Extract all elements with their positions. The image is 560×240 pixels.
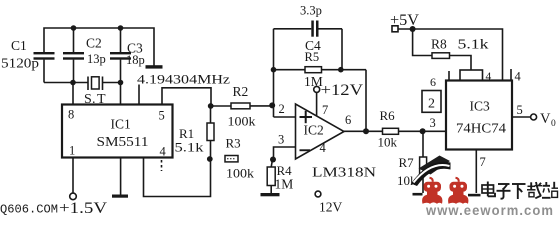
node dot rail C2 — [71, 25, 77, 31]
svg-text:IC1: IC1 — [111, 117, 131, 132]
pin 7 lead (IC3) — [475, 150, 477, 194]
wire IC1 pin xtal left — [72, 83, 74, 105]
svg-text:R3: R3 — [226, 136, 241, 151]
IC1 box — [62, 105, 173, 158]
svg-text:2: 2 — [279, 102, 285, 116]
terminal +12V — [314, 86, 320, 92]
svg-text:C2: C2 — [86, 36, 102, 51]
wire output — [344, 130, 383, 132]
pin 4 label (right) — [515, 70, 522, 84]
resistor R4 — [267, 160, 293, 194]
svg-text:4: 4 — [515, 70, 522, 84]
svg-text:4: 4 — [160, 145, 167, 159]
wire crystal rail — [44, 82, 121, 84]
pin 2 label (IC2) — [279, 102, 285, 116]
watermark www.eeworm.com — [425, 203, 554, 218]
IC3 preset pin box — [460, 70, 483, 81]
terminal +5V — [392, 26, 398, 32]
pin 8 label — [68, 108, 74, 122]
svg-text:100k: 100k — [226, 166, 255, 181]
pin 3 label (IC2) — [278, 133, 284, 147]
svg-text:4.194304MHz: 4.194304MHz — [137, 72, 230, 87]
svg-text:www.eeworm.com: www.eeworm.com — [425, 203, 554, 217]
svg-text:R6: R6 — [380, 108, 396, 123]
pin 1 label — [69, 144, 75, 158]
svg-text:5: 5 — [517, 103, 523, 117]
capacitor C2 — [63, 28, 106, 83]
ground (R7) — [413, 193, 423, 196]
node dot +5V — [410, 26, 416, 32]
svg-text:8: 8 — [68, 108, 74, 122]
capacitor C4 — [274, 4, 343, 54]
svg-text:R5: R5 — [305, 50, 320, 64]
svg-text:SM5511: SM5511 — [97, 134, 149, 149]
svg-text:5.1k: 5.1k — [175, 140, 205, 155]
terminal V0 — [531, 114, 537, 120]
svg-text:74HC74: 74HC74 — [456, 121, 506, 136]
svg-text:R7: R7 — [399, 155, 415, 170]
svg-text:100k: 100k — [228, 114, 257, 129]
label 12V — [319, 200, 343, 215]
node dot R5 right — [338, 67, 344, 73]
resistor R1 — [175, 106, 215, 159]
label V0 — [540, 111, 556, 129]
label 4.194304MHz — [137, 72, 230, 87]
label +12V — [321, 82, 364, 99]
resistor R8 — [413, 29, 489, 70]
resistor R2 — [213, 84, 272, 129]
svg-text:4: 4 — [320, 141, 327, 155]
node dot R1 bottom — [207, 156, 213, 162]
capacitor C3 — [110, 28, 145, 83]
svg-text:2: 2 — [428, 97, 435, 112]
wire top rail — [44, 28, 154, 66]
ground (IC1) — [112, 158, 128, 198]
svg-text:6: 6 — [430, 75, 436, 89]
pin 6 label (IC3) — [430, 75, 436, 89]
svg-text:+12V: +12V — [321, 82, 364, 99]
watermark bug 1 — [422, 178, 442, 204]
resistor R5 — [274, 50, 367, 89]
svg-text:+1.5V: +1.5V — [59, 200, 108, 217]
resistor R7 — [397, 131, 427, 193]
wire C4 right leg — [341, 29, 343, 70]
op-amp IC2 — [296, 104, 345, 159]
svg-text:LM318N: LM318N — [312, 165, 376, 180]
IC3 top-left stub — [448, 71, 450, 81]
resistor R6 — [378, 108, 447, 150]
pin 4 dashed stub — [161, 160, 163, 171]
label 74HC74 — [456, 121, 506, 136]
svg-text:IC3: IC3 — [470, 99, 491, 114]
label +5V — [390, 12, 420, 29]
pin 7 label (IC2) — [322, 103, 328, 117]
label +1.5V — [59, 200, 108, 217]
node dot inverting input — [269, 102, 275, 108]
crystal S.T — [84, 77, 106, 108]
glyph zhan — [542, 182, 558, 198]
label LM318N — [312, 165, 376, 180]
svg-text:Q606.COM: Q606.COM — [0, 204, 58, 217]
svg-text:3: 3 — [430, 116, 436, 130]
pin 5 label — [159, 109, 165, 123]
capacitor C1 — [1, 38, 55, 83]
wire pin2 stub — [274, 116, 296, 118]
svg-text:V: V — [540, 111, 551, 127]
svg-text:18p: 18p — [126, 53, 145, 67]
wire R5 to output node — [365, 70, 367, 132]
terminal -12V — [315, 191, 321, 197]
wire V+ lead — [316, 93, 318, 116]
label IC3 — [470, 99, 491, 114]
svg-text:12V: 12V — [319, 200, 343, 215]
svg-text:3: 3 — [278, 133, 284, 147]
pin 6 label (IC2) — [345, 113, 351, 127]
resistor R3 — [225, 136, 255, 181]
glyph zai — [527, 182, 542, 198]
label SM5511 — [97, 134, 149, 149]
IC3 top-right stub — [510, 69, 512, 81]
svg-text:R8: R8 — [431, 37, 447, 52]
svg-text:R2: R2 — [233, 84, 249, 99]
pin 5 lead — [512, 116, 531, 118]
wire IC1 clock out — [162, 88, 211, 106]
svg-text:0: 0 — [551, 119, 556, 129]
svg-text:13p: 13p — [87, 52, 106, 66]
wire IC1 freq stub — [138, 85, 140, 105]
svg-text:7: 7 — [322, 103, 328, 117]
pin 3 label (IC3) — [430, 116, 436, 130]
node dot output — [363, 128, 369, 134]
pin 7 label (IC3) — [480, 155, 486, 169]
svg-text:3.3p: 3.3p — [300, 4, 322, 18]
watermark text dianzi xiazaizhan — [482, 182, 558, 200]
svg-text:IC2: IC2 — [304, 123, 324, 138]
node dot crystal right — [118, 80, 124, 86]
pin 4 label (IC2) — [320, 141, 327, 155]
wire IC1 bottom to R1 — [144, 158, 211, 197]
wire pin3 stub — [274, 147, 296, 160]
watermark hat — [411, 156, 451, 187]
glyph xia — [512, 184, 526, 199]
terminal +1.5V — [70, 193, 77, 200]
wire +5V rail — [398, 29, 503, 81]
label IC1 — [111, 117, 131, 132]
pin 5 label (IC3) — [517, 103, 523, 117]
svg-text:7: 7 — [480, 155, 486, 169]
svg-text:1: 1 — [69, 144, 75, 158]
node dot crystal left — [70, 80, 76, 86]
ground (R4) — [261, 193, 280, 196]
label Q606.COM — [0, 204, 58, 217]
node dot R5 left — [271, 67, 277, 73]
wire feedback column — [273, 29, 275, 117]
watermark bug 2 — [448, 178, 468, 204]
svg-text:10k: 10k — [378, 135, 398, 150]
node dot R1 top — [208, 103, 214, 109]
wire IC1 pin xtal right — [120, 83, 122, 105]
IC3 box — [446, 81, 512, 150]
svg-text:6: 6 — [345, 113, 351, 127]
svg-text:5.1k: 5.1k — [458, 37, 489, 52]
pin 4 label (preset) — [486, 71, 492, 83]
pin 4 label — [160, 145, 167, 159]
ground (top rail) — [146, 65, 163, 68]
node dot R7 tap — [420, 128, 426, 134]
wire pin1 lead — [72, 158, 74, 194]
svg-text:C1: C1 — [11, 38, 27, 53]
node dot rail C3 — [118, 25, 124, 31]
svg-text:5: 5 — [159, 109, 165, 123]
svg-text:5120p: 5120p — [1, 56, 39, 71]
svg-text:1M: 1M — [275, 177, 294, 192]
node dot pin3 — [270, 157, 276, 163]
glyph zi — [497, 184, 511, 199]
pin 2 box (IC3) — [422, 91, 441, 113]
glyph dian — [482, 182, 495, 197]
ground (IC3 pin7) — [468, 194, 481, 197]
